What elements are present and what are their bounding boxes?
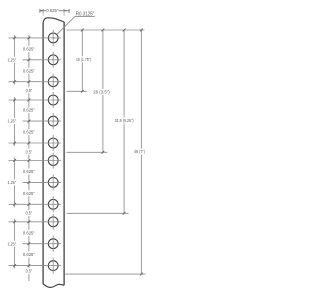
strip outline right edge	[63, 22, 65, 285]
strip outline left edge	[42, 22, 44, 283]
row hole5	[23, 120, 62, 122]
hole 10	[48, 214, 58, 230]
row hole9	[9, 203, 62, 205]
right dim labels	[76, 57, 145, 154]
right extension row 2	[66, 151, 107, 153]
hole 6	[48, 135, 58, 151]
svg-text:0.625": 0.625"	[23, 191, 35, 196]
left labels 0.625" column	[23, 47, 35, 258]
row hole4	[9, 99, 62, 101]
svg-text:46 (7"): 46 (7")	[134, 149, 145, 154]
strip bottom break line	[43, 284, 64, 288]
row hole11	[23, 243, 62, 245]
hole 2	[48, 52, 58, 68]
row hole3	[9, 81, 62, 83]
svg-text:16 (1.75"): 16 (1.75")	[76, 57, 91, 62]
row hole2	[23, 59, 62, 61]
strip rounded top R0.3125	[43, 18, 64, 23]
right extension row 3	[67, 212, 129, 214]
right dim line 3 (5.25")	[123, 30, 125, 213]
hole center extension rows (left)	[9, 38, 62, 266]
svg-text:0.5": 0.5"	[26, 149, 33, 154]
left labels 0.5"	[26, 88, 33, 274]
col A ticks	[28, 37, 31, 40]
svg-text:1.25": 1.25"	[8, 241, 17, 246]
svg-text:0.5": 0.5"	[26, 211, 33, 216]
row hole12	[9, 265, 62, 267]
hole 9	[48, 196, 58, 212]
svg-text:1.25": 1.25"	[8, 119, 17, 124]
col B ticks	[13, 37, 16, 40]
right dim line 2 (3.5")	[102, 30, 104, 152]
hole 3	[48, 74, 58, 90]
left inner dimension column (0.625/0.5 chain)	[28, 35, 30, 281]
right extension row 4	[65, 273, 145, 275]
svg-text:26 (3.5"): 26 (3.5")	[93, 90, 110, 95]
right dim ticks top	[81, 29, 84, 32]
hole 5	[48, 113, 58, 129]
right dim line 1 (1.75")	[81, 30, 83, 91]
svg-text:0.625": 0.625"	[23, 130, 35, 135]
svg-text:0.5": 0.5"	[26, 88, 33, 93]
row hole1	[9, 37, 62, 39]
right dim ticks bottom	[81, 90, 84, 93]
row hole7	[9, 160, 62, 162]
hole 1	[48, 30, 58, 46]
hole 7	[48, 153, 58, 169]
svg-text:0.625": 0.625"	[46, 8, 59, 13]
svg-text:0.5": 0.5"	[26, 269, 33, 274]
left outer dimension column (1.25 dims)	[14, 35, 16, 269]
svg-text:31.8 (5.25"): 31.8 (5.25")	[115, 118, 134, 123]
left labels 1.25"	[8, 57, 17, 246]
right datum extension row (from rounded-end center)	[67, 29, 145, 31]
svg-text:1.25": 1.25"	[8, 57, 17, 62]
hole 11	[48, 236, 58, 252]
top width dimension 0.625"	[40, 8, 69, 16]
leader and label R0.3125"	[57, 12, 95, 35]
right dim line 4 (7")	[140, 30, 142, 274]
svg-text:0.625": 0.625"	[23, 68, 35, 73]
row hole6	[9, 142, 62, 144]
svg-text:0.625": 0.625"	[23, 169, 35, 174]
row hole10	[9, 221, 62, 223]
svg-text:0.625": 0.625"	[23, 108, 35, 113]
hole 4	[48, 92, 58, 108]
svg-text:R0.3125": R0.3125"	[76, 12, 95, 18]
svg-text:0.625": 0.625"	[23, 47, 35, 52]
svg-text:1.25": 1.25"	[8, 180, 17, 185]
row hole8	[23, 181, 62, 183]
dimension ticks (oblique slashes)	[13, 29, 143, 276]
svg-text:0.625": 0.625"	[23, 230, 35, 235]
svg-text:0.625": 0.625"	[23, 252, 35, 257]
right extension row 1	[66, 90, 86, 92]
hole 8	[48, 174, 58, 190]
hole 12	[48, 258, 58, 274]
